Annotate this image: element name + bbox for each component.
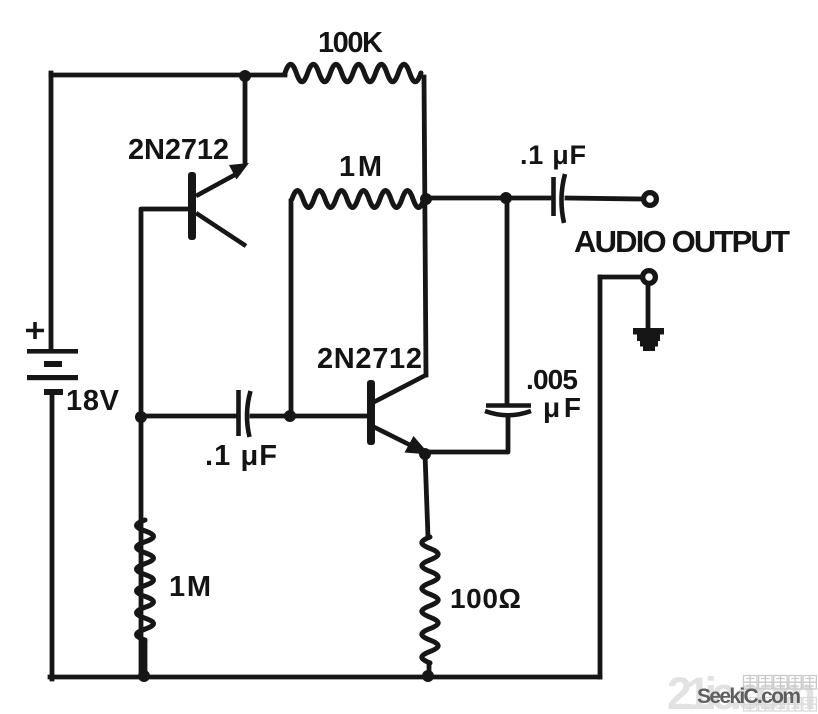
svg-text:2N2712: 2N2712 [128, 134, 229, 166]
wire below battery [50, 393, 55, 679]
node Q2 emitter junction [419, 448, 431, 460]
wire Q1 base [141, 209, 188, 677]
wire C3 bottom to emitter [430, 417, 508, 452]
wire top rail [51, 73, 285, 78]
ground [633, 328, 664, 351]
svg-text:1M: 1M [339, 151, 382, 183]
node 100K / 1M / output junction [420, 193, 432, 205]
resistor R1 100K [285, 64, 421, 82]
svg-text:.1 μF: .1 μF [205, 440, 277, 472]
svg-text:AUDIO OUTPUT: AUDIO OUTPUT [574, 224, 790, 259]
wire emitter to R4 [425, 454, 428, 537]
resistor R4 100ohm [422, 537, 438, 663]
svg-text:1M: 1M [169, 571, 211, 603]
wire C2 to Q2 base [252, 414, 366, 419]
output terminal J1 [644, 193, 657, 206]
watermark chinese row1 [744, 676, 817, 690]
capacitor C1 .1uF top [554, 174, 566, 223]
wire R4 bottom lead [427, 663, 432, 676]
wire ground stub [646, 286, 651, 329]
svg-text:.1 μF: .1 μF [520, 140, 586, 170]
wire mid horizontal to C2 [141, 414, 236, 419]
wire Q1 collector vertical [243, 76, 248, 162]
wire bottom rail [50, 675, 600, 680]
wire left rail [49, 73, 54, 349]
wire jack2 lead [600, 275, 641, 280]
battery B1 18V [26, 322, 78, 395]
transistor Q1 2N2712 [188, 163, 249, 246]
wire 1M left drop [289, 201, 294, 416]
wire C1 to jack1 [567, 198, 641, 199]
output terminal J2 [643, 271, 656, 284]
watermark chinese row2 [744, 698, 817, 712]
svg-text:2N2712: 2N2712 [317, 343, 422, 375]
svg-text:SeekiC.com: SeekiC.com [697, 685, 801, 708]
wire C3 top vertical [505, 198, 510, 404]
node R4 / bottom rail junction [422, 670, 434, 682]
node Q1 base / R3 junction [135, 411, 147, 423]
node C2 / 1M drop junction [284, 410, 296, 422]
svg-text:.005: .005 [526, 364, 578, 395]
wire output rail [425, 196, 549, 201]
resistor R2 1M top [292, 191, 424, 208]
capacitor C2 .1uF mid [239, 390, 251, 437]
node top rail / Q1 collector junction [239, 70, 251, 82]
svg-text:18V: 18V [66, 385, 120, 417]
node R3 / bottom rail junction [138, 670, 150, 682]
wire right rail [598, 277, 603, 677]
capacitor C3 .005uF [485, 406, 531, 416]
transistor Q2 2N2712 [367, 375, 430, 455]
resistor R3 1M bottom [137, 520, 154, 676]
svg-text:100K: 100K [318, 27, 383, 59]
svg-text:100Ω: 100Ω [450, 583, 521, 614]
node output / C3 junction [500, 192, 512, 204]
wire 100K right / Q2 collector vertical [424, 77, 426, 375]
